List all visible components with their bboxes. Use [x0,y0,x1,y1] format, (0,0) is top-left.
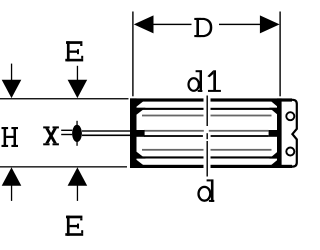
bottom-left up arrow [2,167,22,185]
d leader dash [207,133,208,139]
dimension D: right extension line [279,12,280,97]
mid tab left [136,130,145,137]
mid tab right [269,130,278,137]
rib line 2 (upper, black) [136,108,278,110]
top-left down arrow [2,80,22,98]
bottom E up arrow [68,167,88,185]
label D glyph [194,18,201,20]
dimension H/E: bottom extension line [0,166,127,167]
chamfer wedge bottom-left B' [136,152,145,159]
label d glyph [211,179,214,202]
d1 leader halo [204,96,211,127]
label E bottom glyph [66,216,82,219]
rib line 3 (upper, gray) [142,115,272,117]
dimension H/E: top extension line [0,98,129,99]
rib line 7 (lower, black) [136,156,278,158]
dimension D: right arrowhead [260,15,280,33]
X stub line upper left [61,130,72,131]
label d1 glyph d [200,70,203,92]
d1 leader line [207,96,208,127]
X pair line upper right [82,130,130,131]
mid bore line lower (black, gapped at leader) [144,135,203,137]
bottom E arrow stem [77,186,78,201]
label E top glyph [66,41,82,44]
label H glyph [2,127,9,129]
sleeve left end bar [130,98,137,168]
label d1 glyph 1 [213,70,216,90]
X gasket ellipse [72,125,82,142]
X center line vertical [76,121,77,146]
rib line 6 (lower, gray) [142,149,272,151]
sleeve right end bar [277,98,282,168]
sleeve body outer bottom edge [130,165,292,168]
chamfer wedge top-left B [136,108,145,115]
chamfer wedge top-right C [271,101,277,106]
chamfer wedge bottom-left A' [136,160,143,165]
X stub line lower left [61,134,72,135]
dimension D: line left segment [150,24,192,25]
flange (right end plate with holes) [281,100,297,167]
X pair line lower right [82,135,130,137]
bottom-left arrow stem [11,186,12,201]
chamfer wedge bottom-right D' [269,152,277,159]
chamfer wedge top-left A [136,101,143,106]
dimension D: left extension line [132,12,133,97]
d leader line [207,141,208,177]
d leader halo [204,141,211,177]
label X glyph [43,126,49,128]
dimension D: line right segment [219,24,262,25]
top E down arrow [68,80,88,98]
chamfer wedge top-right D [269,108,277,115]
chamfer wedge bottom-right C' [271,160,277,165]
top-left arrow stem [11,64,12,81]
mid bore line upper (gray, gapped at leader) [144,130,204,132]
top E arrow stem [77,66,78,80]
hole (bottom) in flange [286,148,294,156]
hole (top) in flange [286,112,294,120]
sleeve body outer top edge [130,98,292,101]
dimension D: left arrowhead [134,15,154,33]
